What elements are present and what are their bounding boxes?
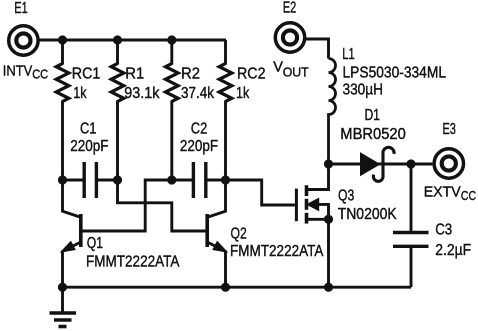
svg-text:E1: E1 [14,0,28,17]
svg-text:1k: 1k [73,85,86,102]
svg-text:FMMT2222ATA: FMMT2222ATA [230,243,324,260]
transistor Q2 [207,180,227,287]
svg-text:D1: D1 [365,107,381,124]
svg-text:OUT: OUT [283,65,309,80]
wire RC2 node to Q3 gate [226,180,295,205]
svg-text:330µH: 330µH [343,82,384,99]
wire top rail from E1 to RC2 [38,39,226,42]
node dot D1/E3/C3 [406,159,415,168]
svg-text:FMMT2222ATA: FMMT2222ATA [86,253,180,270]
resistor RC2 [219,40,232,180]
svg-text:Q2: Q2 [231,225,247,242]
terminal E2 [275,23,304,52]
svg-text:37.4k: 37.4k [181,85,214,102]
svg-text:C3: C3 [435,221,452,238]
transistor Q1 [61,180,81,287]
wire R2 node to Q1 base [82,180,172,231]
svg-text:C2: C2 [191,120,208,137]
svg-text:MBR0520: MBR0520 [340,126,406,143]
node dot Q3 source/body [324,215,333,224]
inductor L1 [329,59,336,165]
svg-text:CC: CC [32,68,48,82]
capacitor C2 [172,162,226,198]
svg-text:R2: R2 [181,66,200,83]
capacitor C1 [63,162,118,198]
wire bottom rail [63,286,412,289]
svg-text:Q3: Q3 [338,188,354,205]
svg-text:220pF: 220pF [180,138,218,155]
node dot caprow/R2 [167,175,176,184]
wire E2 to L1 top [305,39,329,59]
node dot rail/RC1 [58,35,67,44]
capacitor C3 [393,164,429,287]
diode D1 (Schottky) [361,147,395,181]
svg-text:L1: L1 [342,46,355,63]
node dot caprow/R1 [113,175,122,184]
label EXTVCC [424,183,476,203]
node dot rail/Q1 emitter/ground [58,283,67,292]
svg-text:2.2µF: 2.2µF [435,242,471,259]
svg-text:C1: C1 [80,120,97,137]
svg-text:RC2: RC2 [237,66,266,83]
node dot rail/Q2 emitter [221,283,230,292]
resistor R2 [166,40,179,180]
svg-text:E3: E3 [442,121,456,138]
svg-text:RC1: RC1 [72,66,101,83]
resistor R1 [111,40,124,180]
svg-text:E2: E2 [283,0,297,16]
node dot caprow/RC1 [58,175,67,184]
node dot L1/D1/Q3 drain [324,159,333,168]
svg-text:EXTV: EXTV [424,183,461,200]
svg-text:CC: CC [461,189,476,203]
node dot caprow/RC2 [221,175,230,184]
label VOUT [273,60,309,80]
transistor Q3 (MOSFET) [296,164,328,287]
node dot rail/R1 [113,35,122,44]
wire D1 row [329,163,433,166]
svg-text:220pF: 220pF [70,138,108,155]
resistor RC1 [56,40,69,180]
terminal E3 [434,149,463,178]
node dot rail/R2 [167,35,176,44]
node dot rail/Q3 source [324,283,333,292]
svg-text:R1: R1 [125,66,144,83]
ground [50,287,77,326]
label INTVCC [3,62,48,81]
svg-text:V: V [273,60,283,76]
svg-text:Q1: Q1 [87,235,103,252]
svg-text:LPS5030-334ML: LPS5030-334ML [343,64,447,81]
svg-text:INTV: INTV [3,62,33,79]
wire R1 node to Q2 base [118,180,207,231]
svg-text:93.1k: 93.1k [124,85,159,102]
svg-text:TN0200K: TN0200K [338,206,398,223]
svg-text:1k: 1k [236,85,249,102]
terminal E1 [9,26,38,55]
